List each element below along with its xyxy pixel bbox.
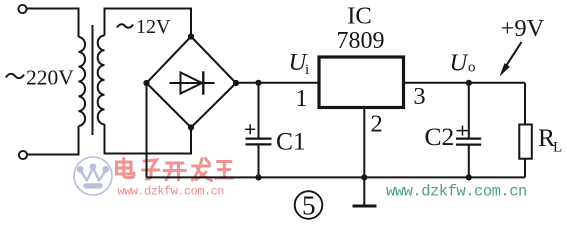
label ~12V <box>117 16 171 38</box>
watermark char kai <box>164 163 186 180</box>
wire pin 2 to ground bus <box>363 108 365 178</box>
svg-text:5: 5 <box>302 190 316 220</box>
transformer core <box>92 25 94 135</box>
wire input rail <box>236 82 318 84</box>
watermark char zi <box>143 160 160 179</box>
svg-text:2: 2 <box>370 111 382 138</box>
svg-text:www.dzkfw.com.cn: www.dzkfw.com.cn <box>118 184 225 198</box>
transformer T secondary winding <box>98 36 105 125</box>
node C2 top junction <box>466 80 472 86</box>
svg-text:IC: IC <box>347 2 372 29</box>
transformer T primary winding <box>79 37 86 126</box>
ground <box>353 177 377 206</box>
watermark char wang <box>216 162 234 179</box>
svg-text:7809: 7809 <box>337 28 385 54</box>
bridge rectifier diamond <box>147 37 237 128</box>
wire primary top lead <box>27 9 79 38</box>
svg-text:o: o <box>468 60 476 76</box>
wire secondary top to bridge <box>105 9 192 37</box>
terminal bottom-left <box>19 151 27 159</box>
node right vertex <box>233 80 239 86</box>
node bottom vertex <box>188 124 194 130</box>
watermark char dian <box>117 159 135 178</box>
svg-text:L: L <box>553 140 562 156</box>
node left vertex <box>143 80 149 86</box>
wire secondary bottom to bridge <box>105 124 192 153</box>
capacitor C2 <box>456 83 481 178</box>
op-amp IC 7809 box <box>319 57 404 108</box>
watermark logo circle W <box>74 157 112 195</box>
diode inside bridge <box>170 71 215 94</box>
svg-text:12V: 12V <box>136 16 171 38</box>
circled number 5 <box>295 190 323 220</box>
label ~220V <box>6 65 74 89</box>
svg-text:U: U <box>450 50 470 77</box>
svg-text:i: i <box>305 62 309 78</box>
node C1 bottom junction <box>255 174 261 180</box>
svg-text:3: 3 <box>413 83 425 110</box>
arrow to output <box>500 42 522 77</box>
terminal top-left <box>18 5 26 13</box>
svg-text:+9V: +9V <box>501 15 545 42</box>
node pin2 bus junction <box>361 174 367 180</box>
wire ground bus <box>147 176 526 178</box>
resistor RL <box>519 83 532 178</box>
wire output rail <box>404 82 526 84</box>
svg-text:1: 1 <box>295 85 307 112</box>
node C2 bottom junction <box>466 174 472 180</box>
node C1 top junction <box>255 80 261 86</box>
svg-text:220V: 220V <box>26 65 74 89</box>
svg-text:C2: C2 <box>425 122 455 151</box>
node top vertex <box>188 33 194 39</box>
wire primary bottom lead <box>28 126 79 155</box>
watermark char fa <box>193 159 212 181</box>
capacitor C1 <box>245 83 271 178</box>
wire left vertex to ground bus <box>146 83 148 177</box>
svg-text:www.dzkfw.com.cn: www.dzkfw.com.cn <box>386 183 527 201</box>
svg-text:C1: C1 <box>276 127 306 156</box>
